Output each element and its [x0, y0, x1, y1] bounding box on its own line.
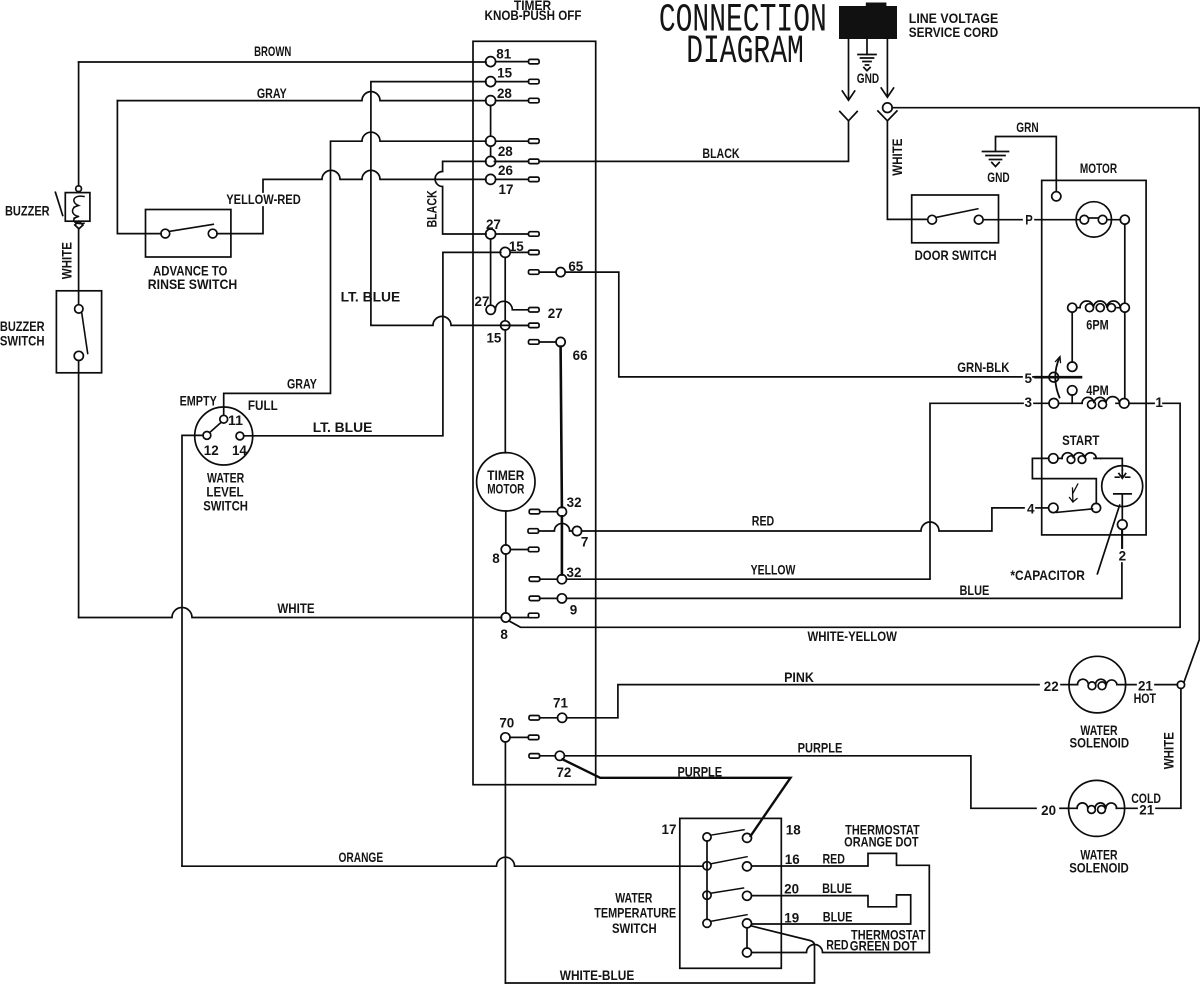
wire row 7 tab to circle and red exit: [539, 523, 573, 531]
wire: start winding hook from coil left around to switch contact: [1032, 458, 1096, 503]
wire row 8a circle to tab: [510, 549, 528, 551]
svg-text:20: 20: [1041, 802, 1056, 818]
svg-text:70: 70: [499, 714, 514, 730]
svg-text:GND: GND: [987, 169, 1009, 185]
thermostat green dot outline: [752, 895, 911, 924]
buzzer B1: [76, 186, 82, 192]
svg-text:66: 66: [573, 347, 588, 363]
svg-text:BLUE: BLUE: [823, 909, 853, 925]
svg-text:65: 65: [568, 258, 583, 274]
svg-text:MOTOR: MOTOR: [487, 481, 524, 497]
winding 4PM: [1049, 399, 1059, 409]
svg-text:START: START: [1062, 432, 1100, 448]
svg-text:BLUE: BLUE: [960, 582, 990, 598]
svg-text:BLACK: BLACK: [424, 190, 440, 227]
svg-text:14: 14: [232, 442, 247, 458]
svg-text:GRAY: GRAY: [257, 85, 287, 101]
wire net 15: terminal 15 row one, down x=370.9, to terminal 15 at y=325.4 with hop over x=442.9: [371, 82, 529, 326]
svg-text:WHITE-BLUE: WHITE-BLUE: [560, 967, 635, 983]
wire GRAY: horizontal to timer terminal 28, hop over x=370.9: [117, 92, 486, 101]
wire: motor 1 row inside box to label 1: [1129, 402, 1154, 404]
svg-text:SERVICE CORD: SERVICE CORD: [909, 24, 998, 40]
wire row 81: [496, 61, 529, 63]
svg-text:SWITCH: SWITCH: [203, 497, 248, 513]
cold water solenoid L2: [1069, 780, 1125, 836]
timer lower terminal circles: [558, 713, 567, 722]
wire row 26 tab lead: [495, 160, 529, 162]
svg-text:MOTOR: MOTOR: [1080, 160, 1117, 176]
svg-text:15: 15: [509, 238, 524, 254]
door switch S4: [912, 195, 999, 243]
svg-text:RINSE SWITCH: RINSE SWITCH: [148, 276, 237, 292]
svg-text:SOLENOID: SOLENOID: [1070, 735, 1130, 751]
ground symbol under plug: [858, 55, 876, 71]
svg-text:ORANGE: ORANGE: [338, 849, 383, 865]
wire row 27: [496, 233, 529, 235]
wire RED: timer terminal 7 to motor switch terminal 4, hop over x=930: [582, 508, 1025, 531]
wire ORANGE: bottom horizontal to water temperature switch, hop over x=505.4: [182, 857, 703, 866]
svg-text:WHITE: WHITE: [59, 242, 75, 279]
wire: main left vertical between buzzer and buzzer switch: [78, 229, 80, 305]
wire: motor internal run to right side vertical: [1107, 220, 1125, 399]
svg-text:EMPTY: EMPTY: [180, 393, 218, 409]
capacitor lead terminal circle: [1118, 520, 1128, 530]
timer box outline: [473, 41, 596, 784]
svg-text:SOLENOID: SOLENOID: [1069, 860, 1129, 876]
plug right connector V: [878, 111, 897, 121]
wire row 15b: [510, 251, 528, 253]
svg-text:32: 32: [567, 564, 582, 580]
svg-text:28: 28: [497, 85, 512, 101]
svg-text:RED: RED: [826, 936, 848, 952]
wire WHITE-YELLOW: timer terminal 8 diagonal and long horizontal, up right side to motor terminal 1: [509, 403, 1180, 627]
svg-text:DOOR SWITCH: DOOR SWITCH: [915, 247, 997, 263]
winding START: [1049, 454, 1058, 463]
wire row 28b: [496, 140, 529, 142]
wire row 8b circle to tab: [510, 617, 528, 619]
wire: 6PM left terminal down to centrifugal contact and 4PM: [1071, 312, 1073, 403]
svg-text:SWITCH: SWITCH: [612, 920, 657, 936]
temp switch left terminal column: [706, 841, 708, 919]
plug right prong wire: [886, 39, 888, 95]
svg-text:RED: RED: [752, 513, 774, 529]
svg-text:LT. BLUE: LT. BLUE: [341, 288, 401, 304]
svg-text:GRAY: GRAY: [287, 376, 317, 392]
capacitor C1: [1102, 466, 1143, 507]
motor box outline: [1042, 180, 1146, 535]
timer mid terminal circles: [557, 507, 566, 516]
wire YELLOW-RED: from advance switch right terminal up and right to terminal 17 (gap at label): [217, 207, 263, 234]
terminal 5 circle: [1049, 372, 1059, 382]
wire plug gnd stem: [866, 39, 868, 55]
svg-text:RED: RED: [823, 850, 845, 866]
wire PURPLE upper: timer terminal 72 to cold water solenoid terminal 20: [564, 756, 1036, 809]
timer terminal circles column one: [486, 57, 496, 67]
plug left connector V: [840, 112, 857, 121]
svg-text:YELLOW: YELLOW: [751, 562, 796, 578]
hot water solenoid L1: [1069, 656, 1126, 713]
svg-text:27: 27: [475, 293, 490, 309]
wire row 65 tab to circle: [539, 271, 556, 273]
svg-text:9: 9: [570, 601, 578, 617]
wire BLACK: terminal 26 row rightward to line voltage cord left prong: [495, 121, 849, 161]
wire row 17: [496, 178, 529, 180]
wire: start coil right end to capacitor top: [1101, 458, 1122, 470]
svg-text:26: 26: [498, 162, 513, 178]
svg-text:32: 32: [567, 494, 582, 510]
svg-text:HOT: HOT: [1134, 690, 1157, 706]
temp switch blades: [711, 830, 745, 836]
start relay contacts 4: [1049, 503, 1058, 512]
svg-text:BUZZER: BUZZER: [5, 203, 50, 219]
svg-text:PURPLE: PURPLE: [677, 763, 722, 779]
svg-text:PINK: PINK: [784, 669, 814, 685]
svg-text:27: 27: [548, 305, 563, 321]
wire: water level switch left terminal to x=182 vertical down to ORANGE: [182, 435, 203, 866]
svg-text:BLUE: BLUE: [822, 880, 852, 896]
wire net 28: terminal 28 second row to x=330.5 vertical down to water level switch gray net, hop over x=370.9: [224, 132, 486, 415]
svg-text:GREEN DOT: GREEN DOT: [850, 938, 917, 954]
svg-text:27: 27: [486, 216, 501, 232]
svg-text:LT. BLUE: LT. BLUE: [313, 419, 373, 435]
svg-text:17: 17: [662, 821, 677, 837]
wire row 15: [496, 81, 529, 83]
capacitor pointer line: [1097, 505, 1119, 574]
wire BROWN: left vertical top corner to timer terminal 81: [79, 61, 486, 63]
motor terminal circle right of run switch: [1120, 215, 1129, 224]
wire WHITE-BLUE: bottom horizontal and riser to water temp switch terminal 19: [505, 926, 814, 983]
svg-text:BLACK: BLACK: [702, 145, 739, 161]
svg-text:BROWN: BROWN: [254, 43, 291, 59]
winding 6PM: [1068, 303, 1077, 312]
wire: timer terminal 70 vertical down to white-blue: [504, 742, 506, 983]
svg-text:WATER: WATER: [615, 890, 652, 906]
svg-text:21: 21: [1139, 802, 1154, 818]
centrifugal switch blade: [1036, 376, 1082, 379]
svg-text:20: 20: [784, 880, 799, 896]
wire row 32a tab to circle: [540, 511, 558, 513]
svg-text:28: 28: [498, 143, 513, 159]
wire: line cord white prong horizontal and right edge vertical with diagonal into node: [892, 108, 1199, 682]
motor grn terminal circle: [1052, 192, 1061, 201]
centrifugal switch arc: [1055, 358, 1059, 398]
thermostat orange dot outline: [752, 853, 930, 952]
svg-text:WHITE: WHITE: [277, 600, 314, 616]
wire thick link 66 to 32 to 32 with hop around row 7: [561, 347, 562, 575]
wire WHITE: bottom horizontal to timer terminal 8, hop over x=182: [79, 608, 502, 618]
svg-text:15: 15: [486, 330, 501, 346]
svg-text:WHITE: WHITE: [889, 139, 905, 176]
wire LT. BLUE: water level switch right terminal to timer terminal 15 (y=252.4): [244, 252, 501, 435]
svg-text:72: 72: [556, 764, 571, 780]
svg-text:19: 19: [784, 910, 799, 926]
svg-text:KNOB-PUSH OFF: KNOB-PUSH OFF: [485, 7, 582, 23]
wire GRN: ground to motor box top terminal: [996, 137, 1057, 192]
svg-text:17: 17: [499, 181, 514, 197]
svg-text:GND: GND: [857, 70, 879, 86]
svg-text:WHITE: WHITE: [1161, 732, 1177, 769]
motor run switch circle: [1076, 202, 1111, 237]
wire row 71 tab to circle: [540, 717, 558, 719]
wire PINK: timer terminal 71 to hot water solenoid terminal 22: [567, 685, 1039, 718]
wire BLUE: timer terminal 9 to capacitor lead 2 (gaps at label 2): [567, 563, 1122, 598]
plug right prong arrowhead: [881, 88, 893, 97]
svg-text:8: 8: [492, 550, 500, 566]
wire GRAY: vertical from gray wire down to advance switch: [117, 101, 161, 234]
svg-text:SWITCH: SWITCH: [0, 332, 45, 348]
wire row 27b hop to tab: [495, 301, 528, 310]
svg-text:TEMPERATURE: TEMPERATURE: [594, 905, 676, 921]
plug left prong arrowhead: [842, 91, 854, 100]
wire link 15-15 column: [504, 257, 506, 320]
svg-text:2: 2: [1119, 548, 1127, 564]
wire: white prong vertical to door switch left terminal: [887, 121, 927, 219]
ground symbol GRN: [983, 152, 1009, 167]
wire: main left vertical (brown/white net) upper segment: [78, 62, 80, 186]
wire link 27-27 column: [490, 239, 492, 305]
svg-text:4: 4: [1027, 501, 1035, 517]
water level switch S3: [195, 407, 253, 465]
svg-text:PURPLE: PURPLE: [798, 740, 843, 756]
svg-text:P: P: [1025, 212, 1033, 228]
wire: capacitor bottom plate down to terminal circle and lead 2: [1121, 495, 1123, 549]
svg-text:1: 1: [1155, 394, 1163, 410]
centrifugal switch contacts: [1068, 362, 1077, 371]
buzzer label pointer: [55, 192, 62, 215]
wire row 70 circle to tab: [510, 736, 528, 738]
node circle at white junction: [1177, 681, 1184, 688]
node circle on white prong: [883, 103, 893, 113]
svg-text:ORANGE DOT: ORANGE DOT: [844, 834, 919, 850]
svg-text:6PM: 6PM: [1086, 317, 1108, 333]
svg-text:7: 7: [581, 534, 589, 550]
wire: hot solenoid 21 to node on white vertical: [1126, 684, 1178, 686]
wire RED bottom: thermostat green dot return to terminal, hop over x=818: [752, 945, 930, 953]
svg-text:YELLOW-RED: YELLOW-RED: [226, 191, 301, 207]
water temperature switch S5 box: [680, 818, 782, 968]
svg-text:4PM: 4PM: [1086, 382, 1108, 398]
plug left prong wire: [848, 39, 850, 98]
wire row 72 tab to circle: [540, 755, 556, 757]
advance to rinse switch S2: [146, 210, 231, 258]
wire row 66 tab to circle: [539, 341, 556, 343]
svg-text:FULL: FULL: [248, 397, 278, 413]
wire WHITE: right edge vertical from node down to cold solenoid 21: [1125, 688, 1181, 808]
timer connector tabs: [528, 59, 540, 758]
wire row 28: [496, 100, 529, 102]
svg-text:22: 22: [1044, 678, 1059, 694]
buzzer switch S1: [56, 291, 101, 373]
svg-text:3: 3: [1025, 394, 1033, 410]
svg-text:8: 8: [500, 626, 508, 642]
svg-text:DIAGRAM: DIAGRAM: [686, 29, 804, 74]
wire PURPLE lower: thick line from terminal 72 diagonal to water temp switch 18: [563, 759, 791, 836]
svg-text:5: 5: [1025, 370, 1033, 386]
wire: main left vertical from buzzer switch to WHITE corner: [78, 361, 80, 618]
svg-text:11: 11: [228, 412, 243, 428]
wire link 28-28: [490, 106, 492, 157]
svg-text:81: 81: [496, 46, 511, 62]
temp switch right terminals: [743, 833, 752, 842]
svg-text:GRN: GRN: [1016, 119, 1038, 135]
svg-text:16: 16: [785, 851, 800, 867]
svg-text:71: 71: [553, 695, 568, 711]
timer motor M1: [477, 453, 535, 511]
svg-text:WHITE-YELLOW: WHITE-YELLOW: [808, 628, 898, 644]
wire: door switch right terminal to motor P terminal: [983, 219, 1080, 221]
svg-text:*CAPACITOR: *CAPACITOR: [1010, 567, 1085, 583]
wire row 9 tab to circle: [540, 597, 558, 599]
wire GRN-BLK: timer terminal 65 down x=618.8 across to motor terminal 5: [565, 272, 1022, 377]
svg-text:12: 12: [204, 442, 219, 458]
line voltage service cord plug: [839, 3, 897, 40]
svg-text:15: 15: [497, 64, 512, 80]
start relay actuator arrow: [1070, 484, 1078, 502]
wire BLACK: terminal 26 row leftward and vertical down to terminal 27, hop around yellow-red: [435, 161, 486, 234]
wire YELLOW: timer terminal 32 to motor terminal 3: [566, 403, 1023, 579]
wire row 15c: [510, 324, 528, 326]
svg-text:GRN-BLK: GRN-BLK: [957, 359, 1009, 375]
wire row 32b tab to circle: [540, 578, 558, 580]
svg-text:18: 18: [786, 822, 801, 838]
wire: timer motor vertical from terminal 15 down through motor to terminals 8: [504, 330, 507, 613]
